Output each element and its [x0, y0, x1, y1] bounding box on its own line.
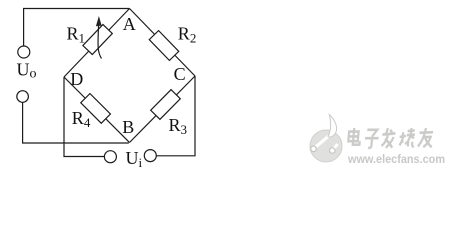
wire from node D down to Ui left terminal [64, 77, 104, 157]
terminal Uo top [18, 46, 30, 58]
svg-text:A: A [123, 14, 136, 34]
svg-text:Uo: Uo [17, 60, 37, 82]
svg-text:www.elecfans.com: www.elecfans.com [347, 152, 445, 166]
resistor R1 (variable) body [83, 25, 112, 55]
watermark chinese char 烧 [399, 128, 416, 147]
svg-text:B: B [122, 117, 134, 137]
wire bridge edge A-D [64, 9, 130, 78]
watermark logo disc [310, 115, 342, 163]
watermark chinese char 发 [381, 128, 396, 148]
resistor R4 body [81, 94, 111, 124]
resistor R2 body [149, 31, 179, 61]
svg-text:R3: R3 [169, 115, 188, 137]
wire from Ui right terminal to node C [156, 76, 195, 156]
watermark chinese char 电 [348, 128, 361, 145]
watermark chinese char 友 [418, 128, 434, 147]
svg-text:Ui: Ui [126, 148, 143, 170]
svg-text:C: C [174, 64, 186, 84]
wire bridge edge A-C [130, 9, 196, 77]
wire bridge edge B-C [130, 76, 196, 143]
svg-text:R2: R2 [178, 24, 197, 46]
resistor R1 wiper arrow [96, 16, 102, 59]
terminal Ui left [104, 151, 116, 163]
terminal Ui right [144, 150, 156, 162]
terminal Uo bottom [17, 91, 29, 103]
svg-text:D: D [70, 69, 83, 89]
svg-text:R1: R1 [67, 24, 86, 46]
wire left lower from Uo to node B [23, 102, 129, 143]
wire bridge edge D-B [64, 77, 130, 143]
watermark chinese char 子 [364, 130, 379, 148]
wire top from Uo to node A [24, 9, 130, 47]
resistor R3 body [151, 90, 181, 120]
svg-text:R4: R4 [72, 108, 91, 130]
